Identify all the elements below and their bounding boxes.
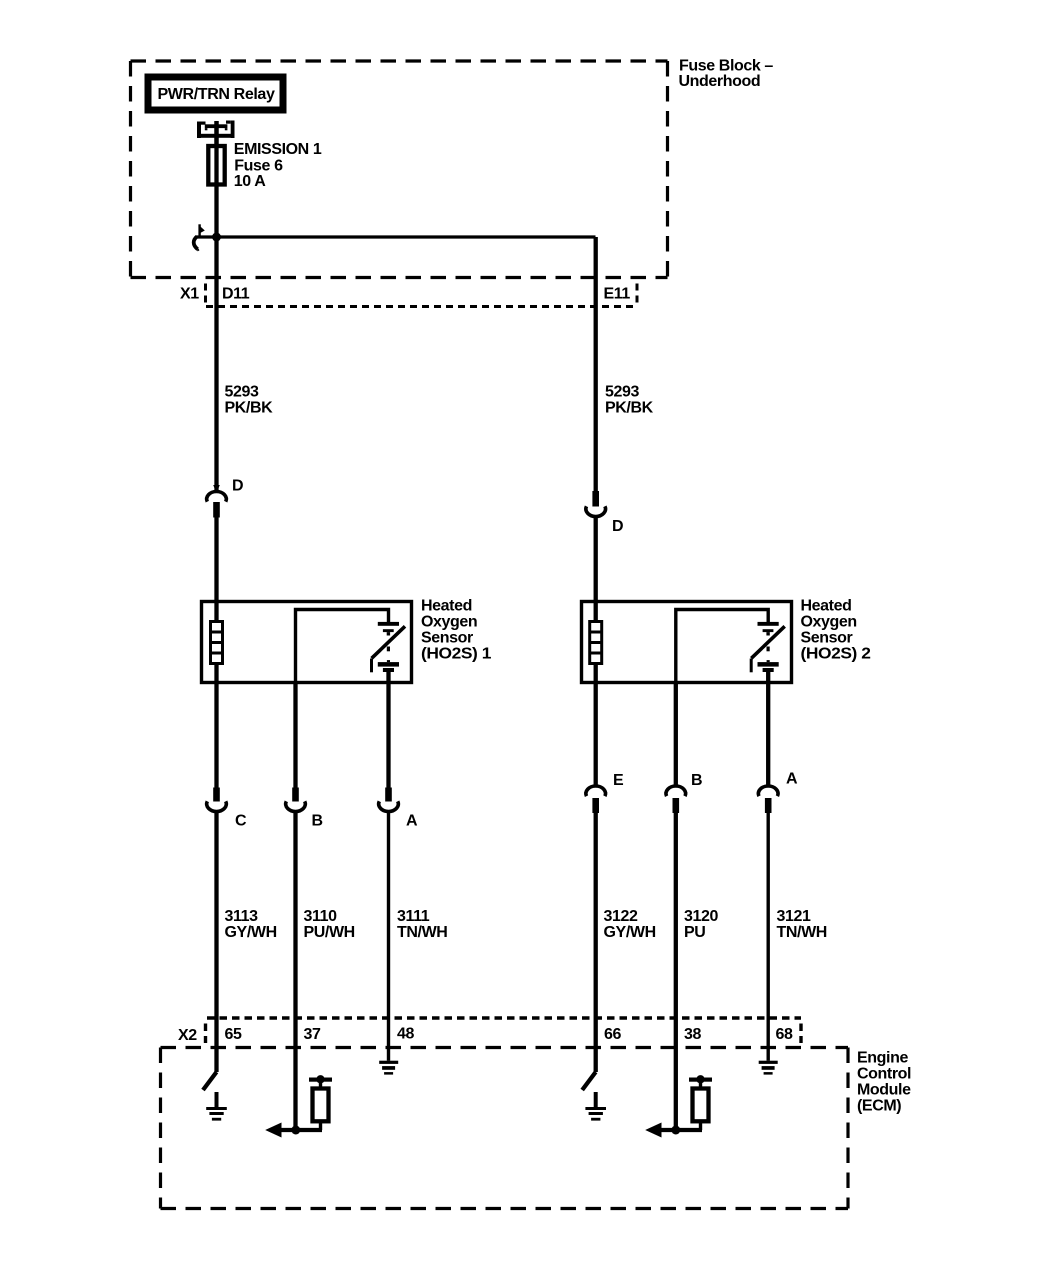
svg-text:5293: 5293 <box>225 384 259 401</box>
svg-text:A: A <box>406 813 418 830</box>
wire D to HO2S1 <box>214 517 218 620</box>
svg-text:E: E <box>613 772 624 789</box>
connector B left <box>286 788 323 830</box>
connector row X1 dotted <box>206 284 638 307</box>
svg-text:EMISSION 1: EMISSION 1 <box>234 141 322 158</box>
ground pin 66 <box>585 1092 606 1121</box>
ground pin 48 <box>379 1061 398 1075</box>
svg-text:D: D <box>612 518 623 535</box>
svg-text:65: 65 <box>225 1026 242 1043</box>
connector A right <box>758 771 798 814</box>
svg-text:5293: 5293 <box>605 384 639 401</box>
svg-text:Underhood: Underhood <box>679 73 761 90</box>
wire B2 to X2 <box>674 812 678 1130</box>
connector E right <box>586 772 624 813</box>
svg-text:66: 66 <box>604 1026 621 1043</box>
svg-text:PK/BK: PK/BK <box>225 400 274 417</box>
ground pin 68 <box>759 1061 778 1075</box>
resistor pin 37 <box>309 1075 332 1130</box>
wire sensor2 to box bottom <box>766 672 770 786</box>
svg-text:3122: 3122 <box>604 908 638 925</box>
svg-text:TN/WH: TN/WH <box>397 924 447 941</box>
HO2S1 label <box>421 598 492 663</box>
fuse F6 EMISSION 1 <box>208 146 224 185</box>
heater element HO2S2 <box>590 622 602 664</box>
wire D to HO2S2 <box>594 516 598 620</box>
fuse label <box>234 141 322 190</box>
svg-text:E11: E11 <box>604 286 631 303</box>
svg-text:3120: 3120 <box>684 908 718 925</box>
svg-text:Engine: Engine <box>857 1050 908 1067</box>
svg-text:GY/WH: GY/WH <box>225 924 277 941</box>
wire arrow pin 38 <box>645 1123 702 1138</box>
HO2S1 sensor cell <box>378 622 399 672</box>
svg-text:3110: 3110 <box>304 908 338 925</box>
wire label 3121 TN/WH <box>777 908 827 941</box>
svg-text:Control: Control <box>857 1066 911 1083</box>
switch blade pin 65 <box>203 1072 217 1090</box>
svg-text:PU: PU <box>684 924 705 941</box>
svg-text:X2: X2 <box>178 1027 197 1044</box>
connector C left <box>207 788 247 830</box>
svg-text:Module: Module <box>857 1082 911 1099</box>
svg-text:68: 68 <box>776 1026 793 1043</box>
heater element HO2S1 <box>211 622 223 664</box>
HO2S1 internal sensor wires <box>296 610 389 684</box>
wire sensor to box bottom <box>386 672 390 788</box>
fuse block underhood dashed box <box>131 61 668 278</box>
wire relay to fuse <box>214 121 219 145</box>
ECM label <box>857 1050 911 1115</box>
svg-text:37: 37 <box>304 1026 321 1043</box>
HO2S2 box <box>582 602 792 683</box>
svg-text:Fuse 6: Fuse 6 <box>234 157 283 174</box>
connector row X2 dotted <box>206 1018 802 1043</box>
HO2S2 sensor cell <box>758 622 779 672</box>
svg-text:PU/WH: PU/WH <box>304 924 355 941</box>
connector D left (in-line) <box>207 478 243 518</box>
switch blade pin 66 <box>582 1072 596 1090</box>
wire C to X2 <box>214 811 218 1072</box>
wire B HO2S2 down <box>674 683 678 786</box>
svg-text:B: B <box>691 772 702 789</box>
svg-text:Heated: Heated <box>421 598 472 615</box>
svg-text:PK/BK: PK/BK <box>605 400 654 417</box>
svg-text:(HO2S) 1: (HO2S) 1 <box>421 646 492 663</box>
ECM dashed box <box>161 1048 849 1209</box>
wire right vertical E11 branch <box>594 237 598 491</box>
connector D right (in-line) <box>586 491 623 535</box>
HO2S1 box <box>202 602 412 683</box>
fuse block label <box>679 57 774 90</box>
wire label 3120 PU <box>684 908 718 941</box>
wire arrow pin 37 <box>265 1123 322 1138</box>
relay terminal symbol <box>197 121 235 139</box>
svg-text:Oxygen: Oxygen <box>801 614 857 631</box>
svg-text:38: 38 <box>684 1026 701 1043</box>
svg-text:A: A <box>786 771 798 788</box>
svg-text:B: B <box>312 813 323 830</box>
connector A left <box>379 788 418 830</box>
wire B to X2 <box>293 811 297 1130</box>
wire label 5293 PK/BK left <box>225 384 274 417</box>
svg-text:Oxygen: Oxygen <box>421 614 477 631</box>
wire label 3111 TN/WH <box>397 908 447 941</box>
svg-text:X1: X1 <box>180 286 199 303</box>
wire junction horizontal <box>196 235 596 238</box>
HO2S2 sensor diagonal <box>751 626 784 658</box>
svg-text:D11: D11 <box>222 286 250 303</box>
connector B right <box>666 772 702 813</box>
HO2S2 label <box>801 598 872 663</box>
wire label 3122 GY/WH <box>604 908 656 941</box>
svg-text:3121: 3121 <box>777 908 811 925</box>
wire label 3113 GY/WH <box>225 908 277 941</box>
wire label 3110 PU/WH <box>304 908 355 941</box>
wire A2 to X2 <box>767 812 770 1061</box>
wire heater to box bottom <box>214 664 218 788</box>
junction dot <box>212 233 221 242</box>
wire fuse to junction to HO2S1 (left vertical) <box>214 184 218 492</box>
svg-text:Sensor: Sensor <box>801 630 853 647</box>
wire label 5293 PK/BK right <box>605 384 654 417</box>
svg-text:48: 48 <box>397 1026 414 1043</box>
HO2S2 internal sensor wires <box>676 610 768 684</box>
wire E to X2 <box>594 812 598 1072</box>
svg-text:10 A: 10 A <box>234 173 266 190</box>
svg-text:Fuse Block –: Fuse Block – <box>679 57 773 74</box>
svg-text:3111: 3111 <box>397 908 430 925</box>
splice curl symbol <box>194 224 205 251</box>
wire heater2 to box bottom <box>594 664 598 786</box>
resistor pin 38 <box>689 1075 712 1130</box>
svg-text:Sensor: Sensor <box>421 630 473 647</box>
svg-text:(HO2S) 2: (HO2S) 2 <box>801 646 872 663</box>
relay PWR/TRN box <box>148 77 283 110</box>
ground pin 65 <box>206 1092 227 1121</box>
wire B HO2S1 down <box>293 683 297 788</box>
svg-text:3113: 3113 <box>225 908 259 925</box>
svg-text:(ECM): (ECM) <box>857 1098 901 1115</box>
svg-text:C: C <box>235 813 247 830</box>
svg-text:GY/WH: GY/WH <box>604 924 656 941</box>
wire A to X2 <box>387 811 390 1061</box>
svg-text:D: D <box>232 478 243 495</box>
HO2S1 sensor diagonal <box>372 626 405 658</box>
svg-text:Heated: Heated <box>801 598 852 615</box>
svg-text:TN/WH: TN/WH <box>777 924 827 941</box>
svg-text:PWR/TRN Relay: PWR/TRN Relay <box>158 86 275 103</box>
